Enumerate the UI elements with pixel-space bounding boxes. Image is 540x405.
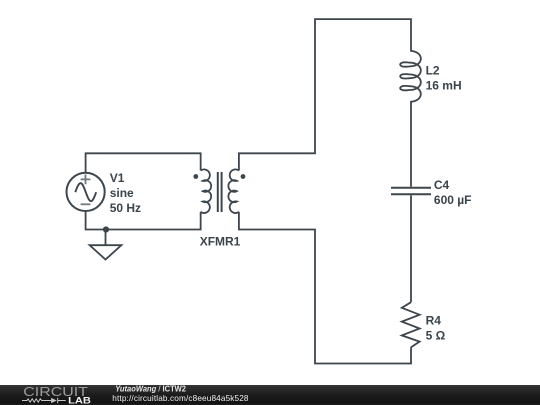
svg-text:YutaoWang / ICTW2: YutaoWang / ICTW2: [115, 384, 186, 393]
svg-text:LAB: LAB: [68, 396, 91, 405]
svg-text:http://circuitlab.com/c8eeu84a: http://circuitlab.com/c8eeu84a5k528: [112, 394, 249, 403]
